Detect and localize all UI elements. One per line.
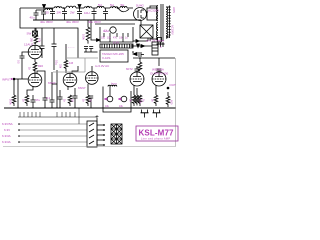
svg-text:1M: 1M [69,61,74,65]
choke L6 [110,6,118,8]
wire R5 top [65,44,67,58]
fuse below box [33,28,38,36]
svg-text:47u: 47u [35,98,40,102]
svg-text:0.1: 0.1 [46,96,51,100]
svg-text:6.3/3A: 6.3/3A [2,134,11,138]
bus dots [18,123,20,143]
svg-text:5H: 5H [98,3,102,7]
choke L3 [66,6,76,8]
pot P1 [107,96,113,102]
power transformer left winding [157,6,159,41]
V4 grid [86,77,98,79]
resistor R15 [135,95,139,106]
interstage winding bar [100,44,133,48]
sub circuit rails [100,27,133,42]
wire mains leads [166,6,171,39]
capacitor C20 [89,96,93,108]
wire V5 below [133,85,135,95]
wire feedback line [130,45,152,47]
junction dots rail [63,7,119,9]
wire V6 below [155,85,157,95]
wire V3 plate up [72,66,78,73]
wire B+ rail segments [62,7,66,9]
sub parts row [104,33,128,42]
resistor R12 [138,95,142,106]
svg-text:AC320V: AC320V [148,8,159,12]
triode V5 [130,72,144,86]
svg-text:5H: 5H [110,3,114,7]
out node dot [167,87,169,89]
wire R1 stub [35,28,37,35]
triode V2 [28,73,42,87]
wire R15 top [136,88,138,95]
grid cap C19 [157,69,162,72]
V5 grid [130,78,144,80]
svg-text:to 6.3V below: to 6.3V below [146,39,165,43]
choke L7 [120,6,127,8]
bridge rectifier square [140,25,153,38]
wire left box leg [20,8,78,58]
wire rectifier to psu box [146,11,148,13]
arrow into subcircuit [97,39,101,42]
capacitor C13 [50,72,55,108]
svg-text:6SN7: 6SN7 [78,86,86,90]
resistor R5 [64,58,68,71]
triode V6 [152,72,166,86]
wire B+ rail top [20,7,54,9]
wire column x54 [53,28,55,44]
svg-text:47u: 47u [113,37,118,40]
capacitor C10 [43,90,48,108]
resistor R7 [86,95,90,106]
resistor R3 grid leak [12,95,16,106]
rectifier tube 5U4G [134,8,147,21]
choke L2 [54,6,62,8]
wire x52 top [52,83,57,85]
wire plate V2 up [37,71,45,90]
capacitor C22 [89,47,93,53]
down arrow marker [137,44,140,48]
heater bus line3 [19,135,87,137]
capacitor C6 [92,8,97,20]
wire V2 cathode down [27,86,33,95]
V6 grid [152,78,166,80]
wire V5 top [136,66,138,69]
pot P2 [121,96,127,102]
wire x60 column [59,90,61,97]
heater bus line2 [19,129,87,131]
triode V1 [28,45,42,59]
svg-text:25: 25 [46,11,50,15]
ground rail main [4,107,176,109]
wire V3 cathode network [67,86,69,90]
wire x57 column [56,70,58,108]
transformer label box [100,50,128,62]
capacitor C1 [34,10,39,20]
heater bus line4 [19,141,87,143]
triode V3 [63,73,77,87]
small square component [158,38,162,43]
svg-text:OUT: OUT [170,83,177,87]
V6 cathode [155,81,163,83]
transformer core [161,4,163,41]
wire R5 bottom to tube [65,70,67,73]
V1 grid [29,51,41,53]
pot box outline [103,87,131,113]
svg-text:820: 820 [38,64,43,68]
capacitor C12 [52,44,57,70]
junction dots out [132,45,141,59]
svg-text:INPUT: INPUT [2,78,11,82]
heater line gray 2 [53,71,85,73]
plug connector 1 [141,110,149,118]
triode V4 [86,72,99,85]
svg-text:X-10S: X-10S [102,56,110,60]
V4 cathode [88,80,96,82]
V6 plate [155,72,163,76]
diode D2 [141,45,145,48]
plug connector 2 [153,110,161,118]
capacitor C8 grid [20,56,25,79]
input node wire [13,78,28,80]
wire bypass arc under rail [118,8,129,12]
wire winding taps [150,6,158,41]
svg-text:5U4G: 5U4G [136,4,145,8]
resistor R9 tall [86,24,90,44]
wire box left cap leg [41,44,43,46]
capacitor C16 [139,52,144,57]
svg-text:40u 450V: 40u 450V [66,20,79,24]
svg-text:KSL-M77: KSL-M77 [139,128,175,137]
choke L5 [97,6,104,8]
resistor R1 plate [34,35,38,44]
heater bus line1 [19,123,87,125]
junction cross [96,115,99,118]
bottom tick bus [18,116,97,118]
wire V1 cathode down [34,59,36,62]
V3 plate [66,74,74,78]
resistor R2 cathode [33,62,37,71]
capacitor C15 [73,88,78,108]
V1 plate [31,46,39,50]
svg-text:40u 450V: 40u 450V [88,20,101,24]
resistor R13 [154,95,158,106]
VR tube small [110,27,116,33]
switch box [87,121,97,147]
output terminal block [152,42,158,55]
heater line gray [66,57,98,59]
resistor R4 [25,95,29,106]
heater link vertical [84,58,86,72]
svg-text:Line and phono AMP: Line and phono AMP [141,138,170,141]
V5 cathode [133,81,141,83]
B+ arrow marker 1 [43,5,46,9]
wire V4 plate top [91,66,93,71]
svg-text:6.3/3A: 6.3/3A [2,140,11,144]
choke L4 [84,6,92,8]
wire R10 [139,58,141,62]
V2 grid [29,79,41,81]
svg-text:40u 450V: 40u 450V [40,20,53,24]
svg-text:2W: 2W [57,11,62,15]
V1 cathode [31,54,39,56]
svg-text:6.3V/5A: 6.3V/5A [2,122,13,126]
wire grid leak drop [13,79,15,95]
wire arrow stub [43,8,45,10]
V3 cathode [66,82,74,84]
svg-text:- - - - -: - - - - - [66,45,74,49]
transformer lower terminals [157,42,165,47]
wire input shield [17,79,19,108]
svg-text:2W: 2W [70,11,75,15]
resistor R11 [132,95,136,106]
capacitor C14 [58,97,63,108]
resistor R10 [138,62,142,71]
wire out line [133,57,175,59]
wire out to R14 [167,92,169,96]
svg-text:WE408A: WE408A [152,68,164,72]
pot P1 arrow [104,98,107,100]
connector stub column [97,118,104,145]
arrow right mid [133,53,137,56]
wire V4 below [87,84,89,95]
rectifier plate structure [138,10,144,18]
svg-text:OUTPUT 600: OUTPUT 600 [150,72,168,76]
diode row top [133,40,148,43]
capacitor C2 [41,10,46,20]
svg-text:5H: 5H [121,3,125,7]
capacitor C5 [77,8,82,20]
psu winding box [147,8,157,20]
wire divider bottom [84,51,98,53]
switch contacts [89,123,94,144]
svg-text:SW: SW [27,32,32,36]
bus ticks [20,112,75,117]
wire bridge connections [140,20,142,25]
input junction dot [13,78,15,80]
svg-text:12AU7: 12AU7 [24,43,34,47]
V4 plate [88,72,96,76]
wire x91 x95 columns [91,20,98,40]
title box KSL-M77 [136,126,178,141]
svg-text:hum: hum [111,82,117,86]
V3 grid [64,79,76,81]
svg-text:6072: 6072 [126,67,133,71]
capacitor C21 [84,47,88,53]
connector dots [103,124,105,146]
wire output return bottom [3,58,176,147]
resistor R14 [166,96,170,107]
V2 cathode [31,82,39,84]
grid cap C18 [135,69,140,72]
V5 plate [133,72,141,76]
capacitor C7 [103,8,108,20]
svg-text:6.3V: 6.3V [4,128,10,132]
wire rail y24 [95,23,135,25]
wire V1 grid left [22,52,29,56]
capacitor C11 [40,46,45,58]
svg-text:6SN7: 6SN7 [48,81,56,85]
capacitor C17 [136,66,138,68]
wire bus drop [78,108,80,124]
wire R2 to V2 [34,70,36,73]
choke L1 [45,8,52,10]
svg-text:10H: 10H [84,11,90,15]
B+ arrow marker 2 [78,5,81,9]
svg-text:6.3V: 6.3V [113,41,119,45]
power transformer right winding [166,7,168,38]
wire V6 top [158,58,160,66]
hum pot winding [108,85,117,86]
svg-text:40u: 40u [30,16,35,20]
input arrow [11,78,14,80]
ground rail upper [33,19,141,21]
V2 plate [31,74,39,78]
wire inner rail [36,9,45,11]
svg-text:to 6.3V AC: to 6.3V AC [95,64,110,68]
wire inner box left edge [41,28,43,44]
svg-text:150: 150 [101,37,106,40]
labels magenta [2,3,176,144]
capacitor C4 [62,8,67,20]
wire pot stems [109,87,111,97]
terminal strip [111,124,122,144]
resistor R6 [68,95,72,106]
capacitor C9 [31,95,36,108]
wire x88 down [87,20,89,24]
capacitor C3 [50,8,55,20]
pot P2 arrow [118,98,121,100]
